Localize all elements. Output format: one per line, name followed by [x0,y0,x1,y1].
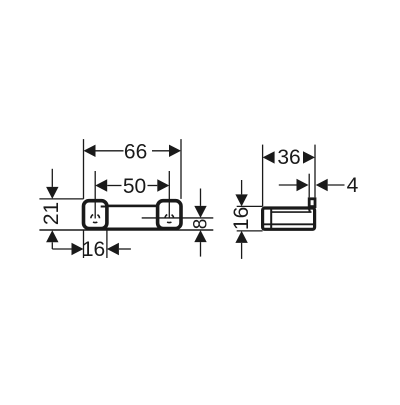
svg-text:16: 16 [82,238,105,261]
right screw centerline [168,171,170,219]
svg-text:50: 50 [123,175,146,198]
side view hook tip curve [308,208,310,212]
side view hook lip tab [309,199,315,207]
dimension 66 [84,139,182,199]
dimension 4 [279,174,359,198]
dimension 16 front [52,230,131,261]
bar top edge overlap into left hook [101,206,107,208]
svg-text:8: 8 [190,219,211,230]
side view body [263,208,315,229]
svg-text:21: 21 [40,202,63,225]
dimension 50 [95,175,169,198]
side view bottom inner line [263,223,315,225]
svg-text:66: 66 [124,140,147,163]
dimension 36 [263,145,315,207]
mid extension line through right hook (8 dim top) [142,217,214,219]
right hook rounded square [158,201,181,229]
dimension 21 [39,169,83,249]
left screw hole (dashed circle) [91,214,100,223]
svg-text:36: 36 [277,146,300,169]
side view hook underside line [271,211,311,213]
side view wall plate line [270,208,272,229]
left hook rounded square [84,201,107,229]
right screw hole (dashed circle) [165,214,174,223]
dimension 8 [190,189,211,257]
svg-text:16: 16 [230,207,253,230]
left screw centerline [94,171,96,219]
bottom extension line (long, shared by 21 and 8 dims) [39,229,213,231]
front view bar (rail between hooks) [95,206,170,229]
svg-text:4: 4 [347,174,359,197]
dimension 16 side [230,180,262,259]
